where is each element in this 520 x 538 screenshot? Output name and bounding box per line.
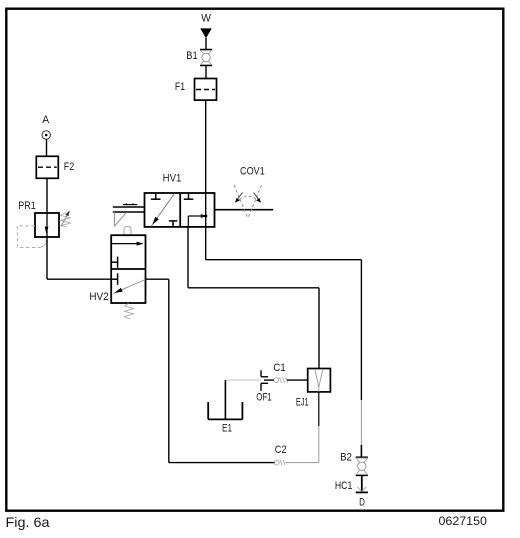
- wire A to F2: [46, 139, 48, 156]
- orifice OF1: [261, 370, 268, 391]
- svg-text:HV1: HV1: [163, 173, 182, 185]
- wire F1 to HV1 (supply line through valve): [205, 100, 207, 260]
- HV1 left square flow arrow: [151, 194, 175, 227]
- filter F2: [36, 156, 58, 178]
- valve B2 label: [340, 452, 352, 464]
- wire C2 to HV2 right port: [146, 279, 275, 462]
- svg-text:W: W: [201, 13, 211, 25]
- figure caption: [6, 514, 50, 530]
- svg-text:A: A: [42, 114, 50, 126]
- wire C1 to orifice OF1: [264, 379, 274, 381]
- filter F2 label: [64, 161, 75, 173]
- valve B2: [356, 457, 368, 475]
- valve B1: [200, 50, 212, 66]
- wire EJ1 left port to check valve C1: [287, 379, 308, 381]
- source symbol W (filled triangle): [200, 28, 212, 38]
- HV1 left square blocked port bottom: [169, 221, 178, 227]
- HV1 right square internal path with arrow: [188, 214, 207, 227]
- valve HV2 body: [111, 235, 145, 303]
- HV1 manual lever actuator: [113, 203, 145, 226]
- wire EJ1 bottom to C2: [286, 392, 319, 463]
- filter F1 label: [175, 81, 185, 93]
- port symbol A (circle with dot): [42, 131, 50, 139]
- coupling HC1 label: [335, 480, 352, 492]
- document number: [439, 514, 488, 528]
- svg-text:C2: C2: [275, 444, 287, 456]
- regulator PR1 label: [18, 200, 35, 212]
- HV2 bottom square flow arrow: [114, 280, 146, 294]
- svg-text:B2: B2: [340, 452, 352, 464]
- regulator PR1: [35, 213, 59, 237]
- tank E1 label: [222, 423, 232, 435]
- svg-text:E1: E1: [222, 423, 232, 435]
- wire HV1 bottom port to EJ1 top: [188, 227, 319, 369]
- wire W to B1: [205, 38, 207, 50]
- valve HV1 label: [163, 173, 182, 185]
- svg-text:PR1: PR1: [18, 200, 35, 212]
- svg-text:D: D: [359, 497, 365, 509]
- svg-text:COV1: COV1: [240, 166, 265, 178]
- svg-text:HV2: HV2: [89, 291, 108, 303]
- valve HV1 body: [145, 193, 215, 227]
- svg-text:OF1: OF1: [256, 392, 272, 404]
- HV1 left square blocked port top: [151, 193, 161, 199]
- ejector EJ1: [308, 369, 331, 392]
- svg-text:EJ1: EJ1: [296, 396, 309, 408]
- check valve C2 label: [275, 444, 287, 456]
- ejector EJ1 label: [296, 396, 309, 408]
- check valve C1: [274, 377, 288, 383]
- HV2 top square blocked port: [111, 257, 117, 268]
- wire OF1 to tank E1: [225, 379, 261, 381]
- wire F2 to PR1: [46, 178, 48, 213]
- svg-text:0627150: 0627150: [439, 514, 488, 528]
- valve HV2 return spring: [125, 304, 134, 320]
- regulator PR1 spring with adjustment arrow: [61, 210, 71, 227]
- HV2 top square flow arrow: [111, 242, 143, 246]
- HV2 bottom square blocked port: [111, 273, 117, 284]
- wire PR1 to HV2: [47, 237, 111, 279]
- svg-text:C1: C1: [273, 362, 286, 374]
- svg-text:F1: F1: [175, 81, 185, 93]
- valve HV2 label: [89, 291, 108, 303]
- node A label: [42, 114, 50, 126]
- regulator PR1 pilot line (dashed): [17, 226, 46, 248]
- wire supply corner to B2 riser: [206, 260, 362, 458]
- tank E1: [208, 380, 242, 419]
- orifice OF1 label: [256, 392, 272, 404]
- HV1 right square blocked port top: [184, 193, 194, 199]
- wire HV1 output to COV1: [215, 209, 274, 211]
- filter F1: [195, 79, 217, 101]
- check valve C1 label: [273, 362, 286, 374]
- svg-text:B1: B1: [186, 50, 197, 62]
- check valve C2: [274, 460, 285, 466]
- node D label: [359, 497, 365, 509]
- valve HV2 push button: [124, 226, 131, 235]
- wire B1 to F1: [205, 66, 207, 79]
- indicator COV1 label: [240, 166, 265, 178]
- valve B1 label: [186, 50, 197, 62]
- svg-text:HC1: HC1: [335, 480, 352, 492]
- svg-text:F2: F2: [64, 161, 75, 173]
- indicator COV1: [234, 185, 262, 218]
- node W label: [201, 13, 211, 25]
- svg-text:Fig. 6a: Fig. 6a: [6, 514, 50, 530]
- coupling HC1: [356, 475, 368, 492]
